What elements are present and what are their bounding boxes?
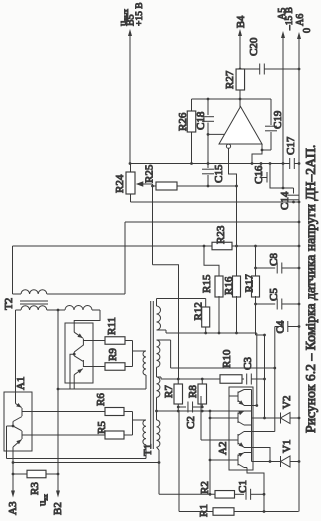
svg-text:R27: R27 xyxy=(224,70,236,89)
op-amp triangle xyxy=(219,107,262,145)
transformer T2 winding 2 xyxy=(16,309,22,311)
resistor R3 xyxy=(13,473,27,475)
wire A2 Q1 emitter exit xyxy=(252,405,257,407)
svg-text:Т2: Т2 xyxy=(3,298,15,310)
wire A2 Q2 emitter to V2 xyxy=(252,417,281,419)
transformer T1 core xyxy=(150,301,152,449)
svg-text:С4: С4 xyxy=(275,320,287,333)
wire winding hook into pair transistors xyxy=(74,310,100,332)
wire B2 input line xyxy=(57,310,59,494)
wire A3 input line xyxy=(12,463,14,494)
wire pair base R11 xyxy=(83,340,105,342)
wire rail y222 xyxy=(125,221,299,223)
wire wiper down path to R7 rail xyxy=(153,265,179,379)
resistor R15 xyxy=(215,276,223,297)
svg-text:R5: R5 xyxy=(96,421,108,434)
capacitor C4 wire xyxy=(275,326,283,328)
transistor A2 Q2 xyxy=(237,413,239,424)
wire A1 second rail y462 xyxy=(13,462,159,464)
transformer T1 winding E right xyxy=(157,420,160,447)
transistor A2 Q3 xyxy=(237,434,239,445)
capacitor C8 wire xyxy=(254,267,257,270)
svg-text:С14: С14 xyxy=(279,191,291,210)
svg-text:R7: R7 xyxy=(163,385,175,398)
svg-text:С8: С8 xyxy=(268,253,280,266)
transformer T1 winding C right xyxy=(157,339,171,341)
wire pair base R9 xyxy=(83,366,105,368)
wire feedback output line xyxy=(192,98,241,100)
svg-text:V1: V1 xyxy=(281,440,293,453)
wire A2 base ties x210 xyxy=(209,411,211,494)
wire A2 Q1 Q3 base tie x201 xyxy=(200,396,202,440)
wire pair collectors tie to left xyxy=(70,354,74,389)
svg-text:С16: С16 xyxy=(253,165,265,184)
terminal B2 arrow xyxy=(56,491,60,498)
capacitor C5 wire xyxy=(254,303,257,306)
svg-text:R1: R1 xyxy=(198,504,210,517)
resistor R7 xyxy=(177,379,179,384)
svg-text:+15 В: +15 В xyxy=(135,2,145,26)
terminal A3 arrow xyxy=(11,491,15,498)
wire C3 right down to V2 xyxy=(264,335,266,418)
terminal A5 arrow xyxy=(281,31,285,38)
wire A6 0 rail xyxy=(298,36,300,512)
terminal A6 arrow xyxy=(297,32,301,39)
transistor A1 Q2 xyxy=(21,431,23,439)
transformer T3 coupling winding xyxy=(58,309,65,311)
svg-text:R10: R10 xyxy=(221,349,233,368)
resistor R17 xyxy=(255,246,257,276)
resistor R8 xyxy=(201,379,203,384)
wire uvyh output line xyxy=(129,33,131,164)
wire op-amp inverting input path xyxy=(229,148,237,276)
wire T2 winding2 left lead down to A1 xyxy=(15,310,17,392)
wire R17 bottom jog xyxy=(256,334,265,336)
transformer T2 winding 1 xyxy=(13,293,22,295)
svg-text:R3: R3 xyxy=(29,482,41,495)
transistor A2 Q1 xyxy=(237,392,239,403)
wire corner x125 down to T2 xyxy=(124,222,126,294)
wire winding C top lead down to y368 wire xyxy=(170,340,172,368)
wire main mid rail y163 xyxy=(130,163,290,165)
svg-text:А2: А2 xyxy=(217,442,229,455)
capacitor C19 xyxy=(270,99,272,125)
wire rail y389 xyxy=(58,388,146,390)
wire long left rail to R23 xyxy=(13,245,205,247)
capacitor C1 xyxy=(235,493,245,495)
capacitor C2 xyxy=(178,406,186,408)
capacitor C15 xyxy=(207,164,209,169)
svg-text:0: 0 xyxy=(302,28,313,33)
transformer T1 winding D right xyxy=(156,367,158,377)
svg-text:R12: R12 xyxy=(193,302,205,320)
resistor R10 xyxy=(216,378,220,380)
wire R15 feed jog from R23 node xyxy=(204,246,219,276)
svg-text:В4: В4 xyxy=(236,15,247,28)
resistor R27 xyxy=(236,69,245,90)
wire R1 long vertical xyxy=(178,411,180,512)
svg-text:А6: А6 xyxy=(295,14,306,26)
diode V1 xyxy=(281,456,291,467)
wire bottom rail to 0 xyxy=(234,511,299,513)
svg-text:R24: R24 xyxy=(114,174,126,193)
svg-text:С1: С1 xyxy=(237,480,249,493)
resistor R12 xyxy=(205,299,207,308)
terminal B4 arrow xyxy=(238,29,242,36)
svg-text:R9: R9 xyxy=(107,348,119,361)
wire A1 emitter rail y458 xyxy=(7,458,147,460)
resistor R23 xyxy=(204,245,212,247)
resistor R5 xyxy=(105,431,124,439)
wire rail y333 xyxy=(166,332,257,334)
wire Q4 bottom exit xyxy=(247,468,264,495)
svg-text:С20: С20 xyxy=(248,37,260,56)
transistor Qa upper of pair xyxy=(82,339,84,346)
wire R6/R5 right tie to winding B xyxy=(124,411,133,413)
svg-text:R11: R11 xyxy=(106,317,118,335)
wire T1 center tap xyxy=(156,397,158,420)
svg-text:С19: С19 xyxy=(272,110,284,129)
op-amp inverting input circle xyxy=(226,144,230,148)
wire A5 -15V rail xyxy=(282,35,284,188)
resistor R2 xyxy=(159,493,215,495)
wire A2 Q4 emitter to V1 xyxy=(252,461,281,463)
svg-text:А3: А3 xyxy=(7,501,19,515)
capacitor C3 xyxy=(242,378,244,380)
transistor Qb lower of pair xyxy=(82,360,84,367)
svg-text:R26: R26 xyxy=(177,112,189,131)
wire tie to T1 winding A xyxy=(133,350,147,352)
transformer T1 winding B left xyxy=(133,419,147,421)
svg-text:R2: R2 xyxy=(199,481,211,494)
wire op-amp V- pin jog xyxy=(252,144,262,164)
wire winding F bottom lead up xyxy=(165,330,167,333)
capacitor C14 xyxy=(293,188,295,194)
transistor pair assembly box xyxy=(65,323,93,383)
capacitor C20 xyxy=(240,68,260,70)
wire T2 left lead up to rail xyxy=(12,246,14,294)
wire Q3Q4 tie to V1 node xyxy=(252,448,271,462)
wire R24 bottom rail y202 xyxy=(131,201,300,203)
resistor R24 potentiometer xyxy=(130,164,132,173)
assembly A2 box xyxy=(229,387,253,470)
svg-text:С17: С17 xyxy=(285,136,297,155)
capacitor C16 xyxy=(260,164,262,178)
svg-text:Т1: Т1 xyxy=(142,444,154,456)
svg-text:С18: С18 xyxy=(195,111,207,130)
svg-text:R6: R6 xyxy=(95,393,107,406)
svg-text:R17: R17 xyxy=(244,274,256,293)
wire C4 left down to Q3 collector xyxy=(274,327,276,432)
svg-text:R15: R15 xyxy=(201,274,213,293)
wire R25 right to inverting node xyxy=(177,185,237,187)
wire y333 corner down to Q1 emitter node xyxy=(256,333,258,406)
resistor R16 xyxy=(233,276,241,297)
assembly A1 box xyxy=(4,392,32,451)
resistor R6 xyxy=(105,408,124,416)
wire R11/R9 right tie xyxy=(125,340,133,342)
wire C18 tee to op-amp inverting slope xyxy=(208,133,225,135)
wire base drive rail y379 xyxy=(161,378,216,380)
diode V2 xyxy=(281,413,291,424)
wire T1 winding F top lead to R12 xyxy=(157,298,206,300)
terminal uvyh/B5/+15V arrow xyxy=(128,29,132,36)
svg-text:Рисунок 6.2 – Комірка датчика: Рисунок 6.2 – Комірка датчика напруги ДН… xyxy=(303,145,318,433)
svg-text:R8: R8 xyxy=(187,385,199,398)
svg-text:С5: С5 xyxy=(268,288,280,301)
wire A2 inner tie vertical xyxy=(251,390,253,462)
wire -15 feed corner to C14 xyxy=(270,164,294,189)
wire A1 Q1 base to R6 xyxy=(22,411,105,413)
capacitor C17 between -15 and 0 rails xyxy=(289,158,291,169)
wire centertap rail y411 to A2 xyxy=(178,410,251,412)
resistor R1 xyxy=(179,511,213,513)
svg-text:С2: С2 xyxy=(185,416,197,429)
resistor R9 xyxy=(105,363,125,371)
svg-text:R23: R23 xyxy=(215,225,227,244)
resistor R11 xyxy=(105,337,125,345)
wire A2 Q3 collector exit xyxy=(252,431,275,433)
svg-text:–15 В: –15 В xyxy=(285,7,295,31)
resistor R26 xyxy=(191,99,193,111)
svg-text:В2: В2 xyxy=(52,502,64,515)
svg-text:V2: V2 xyxy=(281,396,293,409)
transformer T1 winding F top right xyxy=(156,299,158,307)
capacitor C18 xyxy=(207,99,209,115)
wire B4 line xyxy=(239,33,241,69)
resistor R25 xyxy=(152,184,154,265)
transistor A2 Q4 xyxy=(237,455,239,466)
transformer T1 winding A left xyxy=(143,351,146,375)
svg-text:С3: С3 xyxy=(242,357,254,370)
R24 wiper arrow xyxy=(137,183,153,185)
transformer T2 core xyxy=(20,300,48,302)
wire C1 to bottom rail xyxy=(263,494,265,511)
svg-text:С15: С15 xyxy=(213,164,225,183)
wire A1 Q2 base to R5 xyxy=(22,434,105,436)
svg-text:R16: R16 xyxy=(223,276,235,295)
svg-text:R25: R25 xyxy=(144,164,156,183)
transistor A1 Q1 xyxy=(21,408,23,416)
svg-text:А1: А1 xyxy=(15,377,27,390)
